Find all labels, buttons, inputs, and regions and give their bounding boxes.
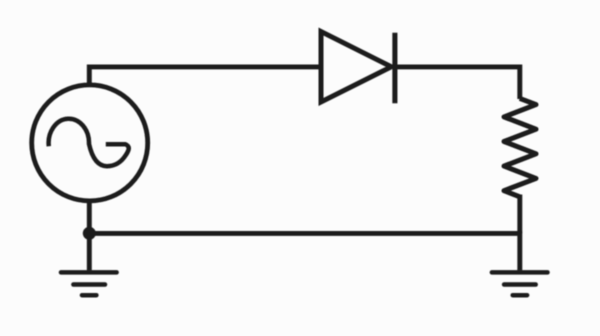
wire right ground lead [517, 231, 522, 270]
wire source top to diode anode [89, 67, 321, 86]
diode D1 triangle [321, 32, 391, 103]
resistor R1 [504, 98, 536, 196]
ground right bar3 [513, 293, 527, 298]
ac source U1 circle [32, 85, 148, 201]
ground right bar1 [492, 270, 548, 275]
wire diode cathode to top-right corner down to resistor [395, 67, 520, 99]
ac source sine symbol [49, 119, 129, 166]
wire resistor bottom to bottom rail [517, 195, 522, 234]
wire source bottom to junction [87, 202, 92, 234]
diode D1 cathode bar [392, 33, 397, 103]
wire bottom rail [89, 231, 520, 236]
ground left bar2 [73, 282, 105, 287]
ground left bar3 [82, 293, 96, 298]
junction node [83, 227, 96, 240]
ground right bar2 [504, 282, 536, 287]
wire junction to left ground [87, 233, 92, 270]
ground left bar1 [61, 270, 117, 275]
